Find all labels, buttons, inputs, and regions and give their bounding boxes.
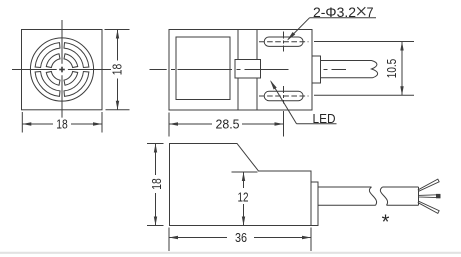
svg-text:18: 18 bbox=[56, 117, 68, 132]
svg-text:36: 36 bbox=[235, 230, 247, 245]
svg-text:*: * bbox=[382, 212, 390, 234]
svg-text:18: 18 bbox=[149, 178, 164, 190]
svg-text:10.5: 10.5 bbox=[384, 59, 399, 79]
svg-text:12: 12 bbox=[238, 189, 249, 204]
svg-text:28.5: 28.5 bbox=[216, 117, 240, 132]
svg-text:18: 18 bbox=[109, 64, 124, 76]
